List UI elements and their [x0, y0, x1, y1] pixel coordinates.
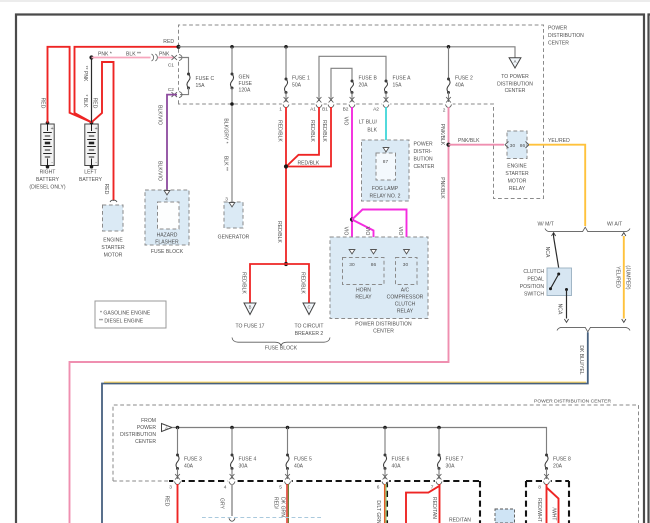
svg-text:SWITCH: SWITCH	[524, 292, 544, 298]
svg-text:** DIESEL ENGINE: ** DIESEL ENGINE	[99, 319, 144, 325]
svg-text:30: 30	[349, 262, 355, 268]
power distribution center boundary (top, dashed)	[179, 25, 544, 199]
svg-text:RED/BLK: RED/BLK	[241, 272, 247, 294]
svg-text:BLK **: BLK **	[126, 52, 141, 58]
svg-text:FUSE A: FUSE A	[393, 76, 412, 82]
fuse block brace	[232, 338, 330, 346]
svg-text:RED/BLK: RED/BLK	[321, 120, 327, 142]
svg-text:PNK *: PNK *	[98, 52, 112, 58]
svg-text:RIGHT: RIGHT	[40, 170, 56, 176]
wire gen fuse to generator	[231, 88, 233, 202]
pin 1	[282, 103, 290, 106]
arrow down (jumper bottom)	[622, 319, 626, 322]
svg-text:DK GRN: DK GRN	[280, 497, 286, 517]
pin B1	[327, 103, 335, 106]
connector pin C2	[177, 90, 180, 98]
svg-text:NCA: NCA	[557, 304, 563, 315]
fuse GEN FUSE 120A	[231, 73, 234, 76]
pin 6	[381, 480, 389, 483]
svg-text:FUSE 8: FUSE 8	[553, 457, 571, 463]
svg-text:A/C: A/C	[401, 288, 410, 294]
wire FUSE 7 to pin	[438, 469, 440, 480]
fuse FUSE 5 40A	[286, 454, 289, 457]
node/lead FUSE 7	[437, 426, 441, 430]
svg-text:RED: RED	[164, 496, 170, 507]
svg-text:W/ M/T: W/ M/T	[538, 222, 554, 228]
wire VIO pin B2 down	[351, 107, 353, 250]
node/lead FUSE 5	[286, 426, 290, 430]
wire RED/BLK pin 1 down	[285, 107, 287, 264]
svg-text:PEDAL: PEDAL	[527, 277, 544, 283]
wire bus to fuse 2	[448, 47, 450, 79]
node/lead FUSE 3	[176, 426, 180, 430]
wire fuse 8 output branch	[547, 488, 559, 523]
fuse FUSE 1 50A	[285, 78, 288, 81]
fuse FUSE 6 40A	[384, 454, 387, 457]
svg-text:RED: RED	[103, 184, 109, 195]
bold dashed pin row (bottom PDC)	[169, 480, 480, 482]
svg-text:5: 5	[279, 485, 282, 491]
chevron pin 86 (starter relay)	[526, 142, 530, 149]
svg-text:4: 4	[165, 197, 168, 203]
svg-text:CENTER: CENTER	[548, 41, 569, 47]
svg-text:B1: B1	[322, 107, 328, 113]
adjacent page frame edge	[649, 15, 650, 523]
wire PNK/BLK to engine starter motor relay	[449, 144, 505, 146]
wire FUSE 5 to pin	[287, 469, 289, 480]
pin A1	[315, 103, 323, 106]
svg-text:CLUTCH: CLUTCH	[523, 269, 544, 275]
svg-text:4: 4	[224, 485, 227, 491]
bottom bus wire	[172, 428, 547, 456]
svg-text:STARTER: STARTER	[505, 171, 529, 177]
wire RED right battery to left battery	[48, 47, 92, 123]
svg-text:POWER: POWER	[137, 425, 157, 431]
node VIO junction	[350, 217, 354, 221]
svg-text:TO POWER: TO POWER	[501, 74, 529, 80]
svg-text:* GASOLINE ENGINE: * GASOLINE ENGINE	[100, 311, 151, 317]
node bus entry	[176, 45, 180, 49]
svg-text:3: 3	[225, 197, 228, 203]
svg-text:GRY: GRY	[219, 498, 225, 510]
svg-text:B2: B2	[343, 107, 349, 113]
svg-text:RED/: RED/	[273, 497, 279, 510]
svg-text:CENTER: CENTER	[505, 88, 526, 94]
svg-text:RELAY: RELAY	[509, 186, 526, 192]
hazard flasher fuse block box	[145, 190, 189, 245]
fuse FUSE 3 40A	[176, 454, 179, 457]
svg-text:(DIESEL ONLY): (DIESEL ONLY)	[29, 185, 65, 191]
pin 8	[542, 480, 550, 483]
svg-text:COMPRESSOR: COMPRESSOR	[387, 295, 424, 301]
svg-text:RED/TAN: RED/TAN	[431, 497, 437, 519]
svg-text:(JUMPER): (JUMPER)	[625, 265, 631, 290]
wire VIO to A/C compressor clutch relay	[352, 210, 407, 250]
svg-text:1: 1	[279, 107, 282, 113]
node RED/BLK split	[284, 262, 288, 266]
svg-text:RELAY NO. 2: RELAY NO. 2	[370, 194, 401, 200]
node PNK/BLK junction	[446, 143, 450, 147]
entry arrow a/c relay 30	[404, 250, 410, 254]
svg-text:15A: 15A	[393, 83, 403, 89]
svg-text:POSITION: POSITION	[520, 284, 545, 290]
wire DK BLU/YEL merge to bottom left	[102, 332, 588, 523]
svg-text:VIO: VIO	[397, 227, 403, 236]
wire fuse A to pin A2	[385, 93, 387, 103]
clutch pedal position switch box	[547, 268, 572, 296]
wire bus to fuse 1	[285, 47, 287, 79]
svg-text:BREAKER 2: BREAKER 2	[295, 331, 324, 337]
svg-text:RED: RED	[40, 98, 46, 109]
wire fuse C to C2	[180, 88, 189, 95]
svg-text:POWER DISTRIBUTION CENTER: POWER DISTRIBUTION CENTER	[534, 399, 611, 405]
svg-text:FUSE: FUSE	[239, 81, 253, 87]
svg-text:FROM: FROM	[141, 418, 156, 424]
svg-text:TO CIRCUIT: TO CIRCUIT	[295, 324, 324, 330]
svg-text:BUTION: BUTION	[414, 157, 434, 163]
wire D/LT GRN fuse 6 output	[384, 484, 386, 523]
svg-text:POWER: POWER	[414, 142, 434, 148]
splice node battery PNK	[89, 55, 93, 59]
arrow FROM POWER DISTRIBUTION CENTER	[162, 424, 173, 432]
svg-text:LT BLU/: LT BLU/	[359, 120, 378, 126]
horn relay inner box	[343, 258, 385, 285]
svg-text:NCA: NCA	[544, 247, 550, 258]
arrow down (switch wire)	[564, 319, 568, 322]
svg-text:FUSE BLOCK: FUSE BLOCK	[265, 346, 298, 352]
inline connector on PNK wire	[151, 54, 159, 62]
svg-text:D/LT GRN: D/LT GRN	[375, 500, 381, 523]
wire pin A1 hook to fuse A	[319, 56, 386, 101]
svg-text:B: B	[249, 304, 252, 309]
svg-text:BATTERY: BATTERY	[36, 177, 60, 183]
fuse FUSE 8 20A	[545, 454, 548, 457]
svg-text:HAZARD: HAZARD	[157, 233, 178, 239]
svg-text:FUSE 5: FUSE 5	[294, 457, 312, 463]
svg-text:TO FUSE 17: TO FUSE 17	[236, 324, 265, 330]
svg-text:BLK/VIO: BLK/VIO	[157, 105, 163, 125]
svg-text:120A: 120A	[239, 88, 251, 94]
wire fuse B to pin B2	[351, 93, 353, 103]
svg-text:PNK/BLK: PNK/BLK	[439, 177, 445, 199]
wire RED/BLK split to circuit breaker arrow	[286, 264, 309, 303]
svg-text:/WHT: /WHT	[551, 508, 557, 521]
svg-text:MOTOR: MOTOR	[104, 253, 123, 259]
svg-text:RED/BLK: RED/BLK	[298, 160, 320, 166]
svg-text:6: 6	[377, 485, 380, 491]
svg-text:PNK/BLK: PNK/BLK	[458, 138, 480, 144]
fuse FUSE B 20A	[351, 80, 354, 83]
svg-text:A: A	[514, 59, 517, 64]
wire RED/TAN fuse 7 output	[439, 484, 441, 523]
svg-text:15A: 15A	[196, 83, 206, 89]
wire C1 to fuse C	[179, 58, 189, 75]
wire FUSE 6 to pin	[384, 469, 386, 480]
fog lamp relay no. 2 (PDC box)	[362, 140, 410, 201]
wire YEL/RED jumper	[623, 236, 625, 319]
pin 4	[228, 480, 236, 483]
node fuse 2 tap	[447, 45, 451, 49]
svg-text:RED/BLK: RED/BLK	[276, 221, 282, 243]
svg-text:GENERATOR: GENERATOR	[218, 235, 250, 241]
svg-text:PNK: PNK	[159, 52, 170, 58]
chevron pin 30 (starter relay)	[505, 142, 509, 149]
svg-text:BLK **: BLK **	[223, 156, 229, 171]
svg-text:BLK: BLK	[367, 128, 377, 134]
svg-text:RED/TAN: RED/TAN	[449, 518, 471, 523]
svg-text:86: 86	[520, 143, 526, 149]
svg-text:FUSE BLOCK: FUSE BLOCK	[151, 249, 184, 255]
svg-text:CENTER: CENTER	[373, 329, 394, 335]
wire fuse 1 to pin 1	[285, 93, 287, 103]
entry arrow generator	[229, 203, 235, 207]
wire FUSE 4 to pin	[231, 469, 233, 480]
fuse FUSE A 15A	[385, 80, 388, 83]
svg-text:BLK/VIO: BLK/VIO	[157, 161, 163, 181]
wire PNK/BLK pin 2 down and across to bottom left	[70, 107, 449, 523]
pin 2	[444, 103, 452, 106]
wire VIO to horn relay 86	[352, 220, 374, 250]
svg-text:3: 3	[169, 485, 172, 491]
svg-text:30: 30	[510, 143, 516, 149]
svg-text:FOG LAMP: FOG LAMP	[372, 186, 399, 192]
svg-text:40A: 40A	[455, 83, 465, 89]
svg-text:PNK/BLK: PNK/BLK	[439, 124, 445, 146]
node gen fuse at PDC edge	[230, 102, 234, 106]
svg-text:RED/WHT: RED/WHT	[536, 498, 542, 522]
node fuse 1 tap	[284, 45, 288, 49]
svg-text:FUSE 3: FUSE 3	[184, 457, 202, 463]
wire RED/WHT fuse 8 output straight	[546, 484, 548, 523]
wire NCA switch to merge	[566, 290, 568, 319]
svg-text:GEN: GEN	[239, 75, 250, 81]
svg-text:ENGINE: ENGINE	[103, 238, 123, 244]
svg-text:2: 2	[443, 108, 446, 114]
wire RED fuse 3 output	[177, 484, 179, 523]
svg-text:87: 87	[383, 159, 389, 165]
arrow up (left branch)	[552, 233, 556, 236]
fuse FUSE 2 40A	[447, 78, 450, 81]
svg-text:HORN: HORN	[356, 288, 371, 294]
svg-text:** PNK: ** PNK	[82, 66, 88, 82]
svg-text:RELAY: RELAY	[397, 309, 414, 315]
fuse FUSE 7 30A	[438, 454, 441, 457]
entry arrow horn relay 86	[371, 250, 377, 254]
svg-text:50A: 50A	[292, 83, 302, 89]
pin B2	[348, 103, 356, 106]
wire PNK to connector C1	[92, 57, 175, 59]
wire FUSE 8 to pin	[546, 469, 548, 480]
svg-text:* BLK: * BLK	[82, 94, 88, 108]
svg-text:40A: 40A	[184, 464, 194, 470]
arrow up (jumper top)	[622, 233, 626, 236]
svg-text:A2: A2	[373, 107, 379, 113]
svg-text:+: +	[95, 126, 98, 132]
battery G1 left battery	[85, 124, 98, 166]
power distribution center box (horn / a-c relays)	[330, 237, 428, 319]
wire RED left battery to power distribution center bus	[75, 47, 179, 123]
wire BLK*/PNK** left battery to splice	[91, 58, 93, 123]
svg-text:DISTRI-: DISTRI-	[414, 149, 433, 155]
svg-text:30A: 30A	[239, 464, 249, 470]
svg-text:POWER: POWER	[548, 26, 568, 32]
svg-text:RED/BLK: RED/BLK	[309, 120, 315, 142]
svg-text:20A: 20A	[553, 464, 563, 470]
wire NCA branch to switch	[554, 233, 559, 268]
engine starter motor box	[103, 205, 124, 231]
page border frame	[0, 0, 650, 2]
svg-text:RED: RED	[163, 39, 174, 45]
svg-text:DK BLU/YEL: DK BLU/YEL	[578, 345, 584, 375]
battery G2 right battery	[41, 124, 54, 166]
svg-text:FUSE 7: FUSE 7	[446, 457, 464, 463]
wire bus to gen fuse	[231, 47, 233, 74]
svg-text:8: 8	[538, 485, 541, 491]
wire RED/BLK from pin B1	[286, 107, 331, 167]
wire pin B1 hook to fuse B	[331, 68, 352, 101]
wire RED/BLK from pin A1	[287, 107, 319, 166]
connector pin C1	[177, 53, 180, 61]
node RED/BLK junction	[284, 164, 288, 168]
pin A2	[382, 103, 390, 106]
node/lead FUSE 4	[230, 426, 234, 430]
wire bus inside PDC	[179, 47, 516, 58]
branch merge bracket	[557, 327, 630, 331]
svg-text:VIO: VIO	[343, 117, 349, 126]
svg-text:LEFT: LEFT	[84, 170, 96, 176]
svg-text:A1: A1	[310, 107, 316, 113]
entry arrow horn relay 30	[349, 250, 355, 254]
wire YEL/RED starter relay to clutch switch branch	[529, 145, 585, 226]
wire BLK/VIO C2 to hazard flasher	[167, 95, 177, 190]
svg-text:A: A	[165, 426, 168, 431]
wire GRY fuse 4 output	[231, 484, 233, 516]
svg-text:20A: 20A	[359, 83, 369, 89]
note box gasoline/diesel	[95, 301, 166, 328]
svg-text:30A: 30A	[446, 464, 456, 470]
entry arrow fog lamp relay pin 87	[383, 148, 389, 152]
connector strip (light blue dashed, bottom left)	[202, 517, 322, 519]
svg-text:POWER DISTRIBUTION: POWER DISTRIBUTION	[355, 322, 412, 328]
svg-text:FUSE 2: FUSE 2	[455, 76, 473, 82]
svg-text:C: C	[307, 304, 310, 309]
svg-text:+: +	[51, 126, 54, 132]
svg-text:40A: 40A	[392, 464, 402, 470]
svg-text:DISTRIBUTION: DISTRIBUTION	[497, 81, 533, 87]
arrow C TO CIRCUIT BREAKER 2	[303, 303, 315, 315]
svg-text:DISTRIBUTION: DISTRIBUTION	[120, 432, 156, 438]
node/lead FUSE 6	[383, 426, 387, 430]
svg-text:BLK/GRY *: BLK/GRY *	[223, 118, 229, 143]
svg-text:FUSE 6: FUSE 6	[392, 457, 410, 463]
fuse C 15A	[187, 73, 190, 76]
svg-text:RED/BLK: RED/BLK	[277, 120, 283, 142]
svg-text:YEL/RED: YEL/RED	[548, 138, 570, 144]
svg-text:DISTRIBUTION: DISTRIBUTION	[548, 33, 584, 39]
wire fuse 2 to pin 2	[448, 93, 450, 103]
svg-text:CLUTCH: CLUTCH	[395, 302, 416, 308]
pin 5	[283, 480, 291, 483]
svg-text:86: 86	[371, 262, 377, 268]
component box (light blue, bottom middle)	[495, 509, 515, 523]
svg-text:RED/BLK: RED/BLK	[300, 272, 306, 294]
arrow TO POWER DISTRIBUTION CENTER	[509, 58, 521, 68]
power distribution center boundary (bottom, dashed)	[113, 405, 639, 523]
branch split bracket W/MT W/AT	[545, 227, 630, 231]
generator box	[224, 202, 243, 228]
wire FUSE 3 to pin	[177, 469, 179, 480]
svg-text:C2: C2	[168, 87, 174, 93]
svg-text:ENGINE: ENGINE	[507, 164, 527, 170]
svg-text:CENTER: CENTER	[135, 439, 156, 445]
svg-text:BATTERY: BATTERY	[79, 177, 103, 183]
node gen fuse tap	[230, 45, 234, 49]
svg-text:W/ A/T: W/ A/T	[607, 222, 622, 228]
a/c compressor clutch relay inner box	[396, 258, 418, 285]
svg-text:C1: C1	[168, 63, 174, 69]
svg-text:FUSE B: FUSE B	[359, 76, 378, 82]
svg-text:30: 30	[403, 262, 409, 268]
wire RED/BLK split to fuse 17 arrow	[250, 264, 286, 303]
fuse FUSE 4 30A	[231, 454, 234, 457]
svg-text:FUSE 1: FUSE 1	[292, 76, 310, 82]
svg-text:FUSE C: FUSE C	[196, 76, 215, 82]
wire YEL tracer on DK BLU/YEL	[104, 381, 586, 383]
svg-text:STARTER: STARTER	[101, 245, 125, 251]
svg-text:FUSE 4: FUSE 4	[239, 457, 257, 463]
wire RED/DK GRN fuse 5 output	[286, 484, 288, 523]
entry arrow hazard flasher pin 4	[164, 191, 170, 195]
engine starter motor relay box	[507, 131, 527, 159]
svg-text:VIO: VIO	[364, 227, 370, 236]
pin 3	[173, 480, 181, 483]
wire RED left battery to engine starter motor	[92, 62, 114, 201]
svg-text:MOTOR: MOTOR	[508, 179, 527, 185]
wire LT BLU/BLK pin A2 to fog lamp relay	[385, 107, 387, 148]
svg-text:YEL/RED: YEL/RED	[615, 266, 621, 288]
svg-text:CENTER: CENTER	[414, 164, 435, 170]
svg-text:FLASHER: FLASHER	[155, 240, 179, 246]
svg-text:RED: RED	[92, 98, 98, 109]
svg-text:40A: 40A	[294, 464, 304, 470]
svg-text:RELAY: RELAY	[355, 295, 372, 301]
arrow B TO FUSE 17	[244, 303, 256, 315]
svg-text:VIO: VIO	[343, 227, 349, 236]
pin 7	[435, 480, 443, 483]
